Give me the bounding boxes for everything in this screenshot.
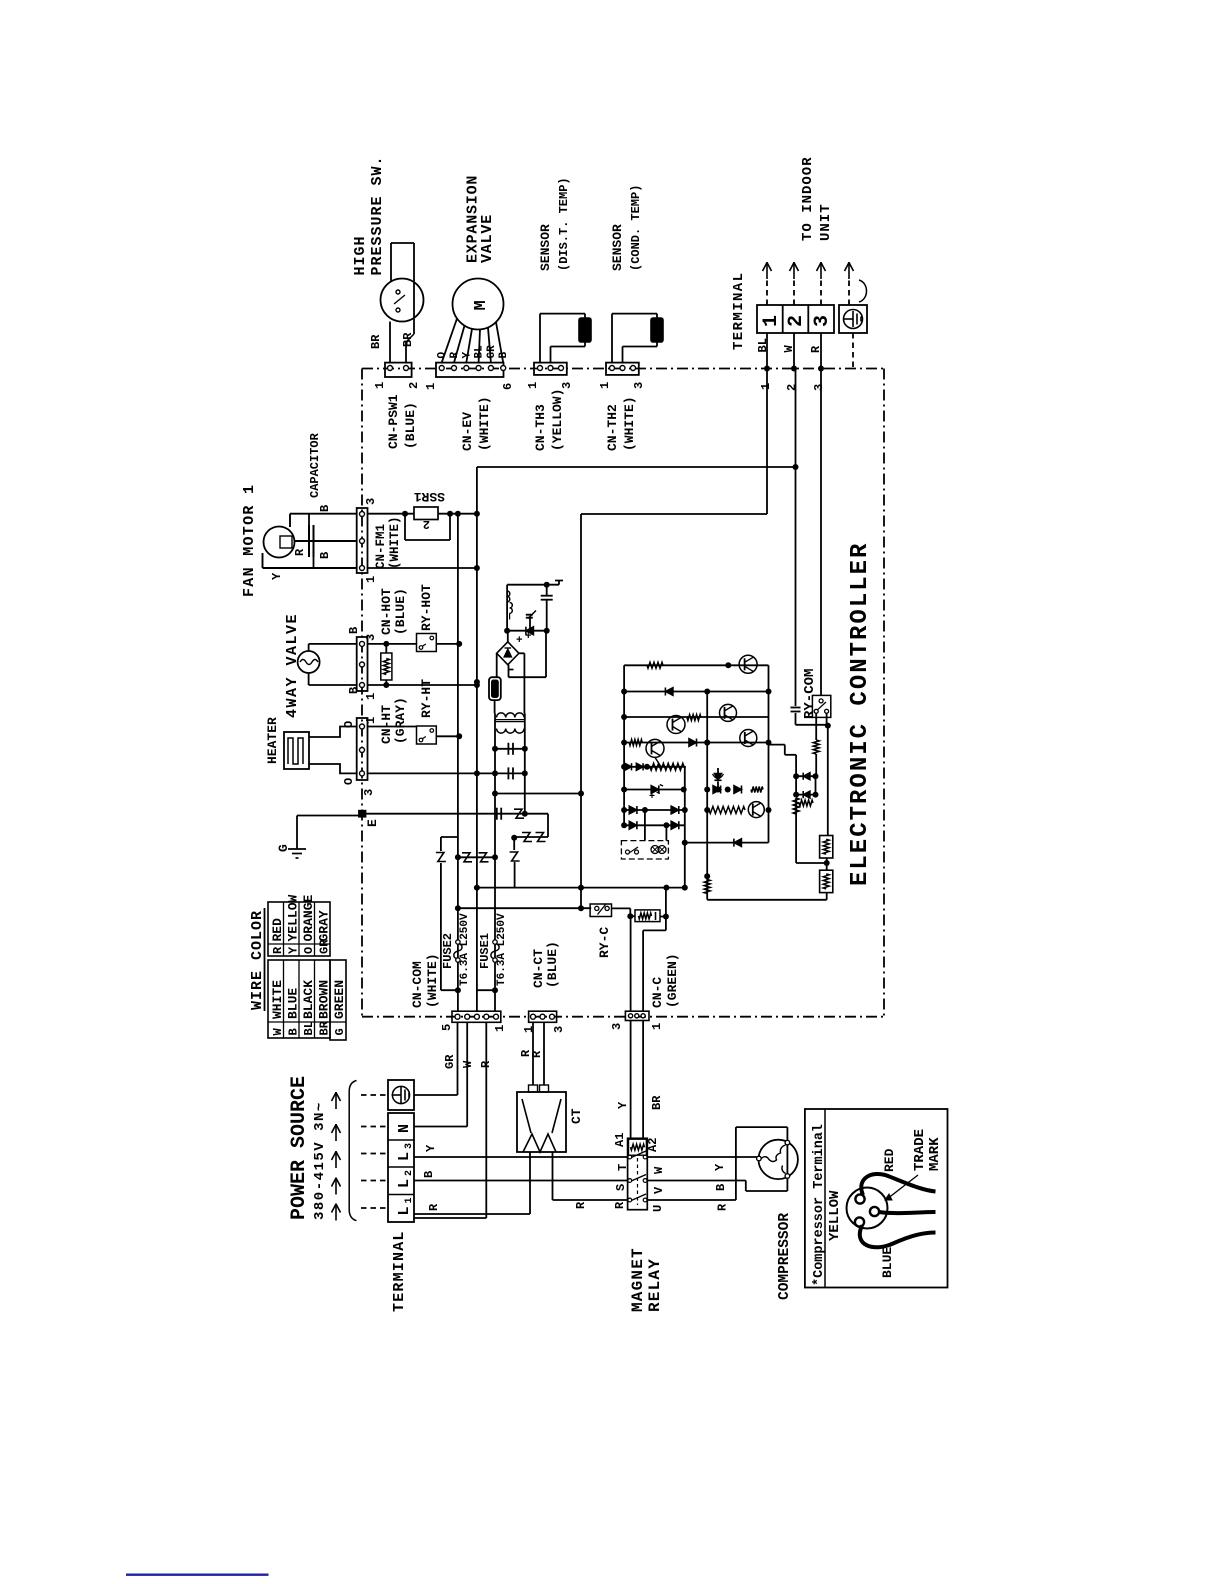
svg-text:R: R <box>449 352 461 359</box>
svg-text:3: 3 <box>560 382 574 389</box>
svg-text:CN-HOT: CN-HOT <box>379 588 394 635</box>
svg-text:1: 1 <box>424 383 438 390</box>
svg-text:1: 1 <box>650 1023 664 1030</box>
svg-text:Y: Y <box>424 1144 438 1152</box>
svg-text:+: + <box>649 792 655 803</box>
svg-text:HEATER: HEATER <box>265 717 280 764</box>
svg-text:MAGNET: MAGNET <box>629 1247 647 1312</box>
svg-text:2: 2 <box>785 315 808 327</box>
svg-text:R: R <box>271 946 285 954</box>
svg-text:TERMINAL: TERMINAL <box>391 1230 408 1312</box>
svg-text:M: M <box>472 300 491 310</box>
svg-text:RY-C: RY-C <box>597 927 612 958</box>
svg-text:BLACK: BLACK <box>301 980 316 1019</box>
svg-text:CN-FM1: CN-FM1 <box>374 524 388 569</box>
svg-text:BL: BL <box>474 345 486 359</box>
svg-text:BR: BR <box>369 334 383 349</box>
svg-text:YELLOW: YELLOW <box>827 1190 843 1241</box>
svg-text:(COND. TEMP): (COND. TEMP) <box>629 185 643 271</box>
svg-text:(BLUE): (BLUE) <box>403 402 418 449</box>
svg-text:CN-CT: CN-CT <box>531 949 546 988</box>
svg-text:B: B <box>318 505 332 512</box>
svg-text:WIRE COLOR: WIRE COLOR <box>249 910 266 1010</box>
svg-text:SSR1: SSR1 <box>414 489 445 504</box>
svg-text:BL: BL <box>302 1021 316 1035</box>
svg-text:RY-COM: RY-COM <box>802 669 818 719</box>
svg-text:GRAY: GRAY <box>317 910 332 941</box>
svg-text:TRADE: TRADE <box>912 1129 928 1171</box>
svg-text:380-415V 3N~: 380-415V 3N~ <box>312 1101 328 1220</box>
svg-text:3: 3 <box>610 1023 624 1030</box>
svg-text:HIGH: HIGH <box>352 235 369 275</box>
svg-text:G: G <box>333 1028 347 1035</box>
svg-text:(WHITE): (WHITE) <box>425 953 440 1008</box>
svg-text:T6.3A L250V: T6.3A L250V <box>496 913 508 986</box>
svg-text:(GRAY): (GRAY) <box>393 697 408 744</box>
svg-text:ORANGE: ORANGE <box>301 894 316 941</box>
svg-text:B: B <box>498 352 510 359</box>
svg-text:RY-HT: RY-HT <box>419 679 434 718</box>
svg-text:L: L <box>396 1152 413 1161</box>
svg-text:(GREEN): (GREEN) <box>665 953 680 1008</box>
svg-text:(WHITE): (WHITE) <box>388 516 402 569</box>
svg-text:COMPRESSOR: COMPRESSOR <box>777 1213 793 1300</box>
svg-text:CAPACITOR: CAPACITOR <box>308 432 322 498</box>
svg-text:VALVE: VALVE <box>479 214 496 263</box>
svg-text:E: E <box>365 819 380 827</box>
svg-text:GR: GR <box>486 345 498 359</box>
svg-text:1: 1 <box>526 382 540 389</box>
svg-text:W: W <box>271 1028 285 1036</box>
svg-text:SENSOR: SENSOR <box>610 224 625 271</box>
svg-text:+: + <box>516 635 523 647</box>
svg-text:(BLUE): (BLUE) <box>545 941 560 988</box>
svg-text:BL: BL <box>756 338 770 352</box>
svg-text:O: O <box>342 721 356 728</box>
svg-text:2: 2 <box>404 1170 415 1176</box>
svg-text:N: N <box>396 1124 413 1133</box>
svg-text:CN-COM: CN-COM <box>410 961 425 1008</box>
svg-text:BR: BR <box>401 332 415 347</box>
svg-text:FAN MOTOR 1: FAN MOTOR 1 <box>241 484 258 597</box>
svg-text:5: 5 <box>440 1024 454 1031</box>
svg-text:R: R <box>716 1203 730 1211</box>
svg-text:CN-HT: CN-HT <box>379 705 394 744</box>
svg-text:6: 6 <box>501 383 515 390</box>
svg-text:(WHITE): (WHITE) <box>477 396 492 451</box>
svg-text:TERMINAL: TERMINAL <box>731 272 747 350</box>
svg-text:(DIS.T. TEMP): (DIS.T. TEMP) <box>557 177 571 271</box>
svg-text:T6.3A L250V: T6.3A L250V <box>459 913 471 986</box>
svg-text:R: R <box>427 1203 441 1211</box>
svg-text:B: B <box>714 1184 728 1191</box>
svg-text:CN-PSW1: CN-PSW1 <box>386 394 401 449</box>
svg-text:3: 3 <box>404 1143 415 1149</box>
svg-text:GR: GR <box>443 1054 457 1069</box>
svg-text:R: R <box>530 1050 544 1058</box>
svg-text:RY-HOT: RY-HOT <box>419 584 434 631</box>
svg-text:CN-EV: CN-EV <box>460 412 475 451</box>
svg-text:4WAY VALVE: 4WAY VALVE <box>284 613 301 718</box>
svg-text:1: 1 <box>493 1025 507 1032</box>
svg-text:CN-C: CN-C <box>650 977 665 1008</box>
svg-text:R: R <box>809 345 823 353</box>
svg-text:B: B <box>422 1171 436 1178</box>
svg-text:A1: A1 <box>613 1133 627 1147</box>
svg-text:1: 1 <box>522 1026 536 1033</box>
svg-text:2: 2 <box>785 384 799 391</box>
svg-text:(WHITE): (WHITE) <box>622 396 637 451</box>
svg-text:3: 3 <box>364 634 378 641</box>
svg-text:+: + <box>525 631 532 643</box>
svg-text:3: 3 <box>364 498 378 505</box>
svg-text:1: 1 <box>404 1197 415 1203</box>
svg-text:WHITE: WHITE <box>270 980 285 1019</box>
svg-text:Y: Y <box>461 352 473 359</box>
svg-text:CN-TH2: CN-TH2 <box>605 404 620 451</box>
svg-text:RED: RED <box>882 1148 897 1172</box>
svg-text:B: B <box>287 1028 301 1035</box>
svg-text:Y: Y <box>287 946 301 954</box>
svg-text:2: 2 <box>407 382 421 389</box>
svg-text:G: G <box>276 844 291 852</box>
svg-text:Y: Y <box>270 572 284 580</box>
svg-text:3: 3 <box>362 789 376 796</box>
svg-text:SENSOR: SENSOR <box>538 224 553 271</box>
svg-text:L: L <box>396 1206 413 1215</box>
svg-text:1: 1 <box>364 717 378 724</box>
svg-text:1: 1 <box>759 383 773 390</box>
svg-text:B: B <box>347 627 361 634</box>
svg-text:RED: RED <box>270 918 285 942</box>
svg-text:ELECTRONIC CONTROLLER: ELECTRONIC CONTROLLER <box>847 542 874 886</box>
svg-text:1: 1 <box>364 693 378 700</box>
svg-text:U: U <box>651 1205 665 1212</box>
svg-text:Y: Y <box>713 1163 727 1171</box>
svg-text:2: 2 <box>423 517 430 531</box>
svg-text:W: W <box>652 1166 666 1174</box>
svg-text:MARK: MARK <box>927 1137 943 1171</box>
svg-text:3: 3 <box>811 315 834 327</box>
svg-text:POWER SOURCE: POWER SOURCE <box>288 1076 311 1220</box>
svg-text:W: W <box>782 345 796 353</box>
svg-text:R: R <box>293 548 307 556</box>
svg-text:BLUE: BLUE <box>880 1247 895 1278</box>
svg-text:UNIT: UNIT <box>818 203 834 241</box>
svg-text:T: T <box>616 1164 630 1171</box>
svg-text:3: 3 <box>632 382 646 389</box>
svg-text:O: O <box>437 352 449 359</box>
svg-text:R: R <box>574 1201 588 1209</box>
svg-text:(YELLOW): (YELLOW) <box>550 389 565 451</box>
svg-text:1: 1 <box>598 382 612 389</box>
svg-text:B: B <box>318 552 332 559</box>
svg-text:L: L <box>396 1179 413 1188</box>
svg-text:1: 1 <box>364 576 378 583</box>
svg-text:YELLOW: YELLOW <box>286 894 301 941</box>
svg-text:RELAY: RELAY <box>646 1258 664 1312</box>
svg-text:R: R <box>479 1060 493 1068</box>
svg-text:B: B <box>347 687 361 694</box>
svg-text:CT: CT <box>569 1108 584 1124</box>
svg-text:TO INDOOR: TO INDOOR <box>800 156 816 241</box>
svg-text:CN-TH3: CN-TH3 <box>533 404 548 451</box>
svg-text:S: S <box>614 1184 628 1191</box>
svg-text:O: O <box>342 778 356 785</box>
svg-text:PRESSURE SW.: PRESSURE SW. <box>369 155 386 275</box>
svg-text:GREEN: GREEN <box>332 980 347 1019</box>
svg-text:BLUE: BLUE <box>286 988 301 1019</box>
svg-text:W: W <box>461 1060 475 1068</box>
svg-text:1: 1 <box>760 315 783 327</box>
svg-text:Y: Y <box>616 1101 630 1109</box>
svg-text:FUSE2: FUSE2 <box>441 933 455 969</box>
svg-text:R: R <box>613 1201 627 1209</box>
svg-text:3: 3 <box>552 1026 566 1033</box>
svg-text:O: O <box>302 947 316 954</box>
svg-text:V: V <box>652 1186 666 1194</box>
svg-text:BR: BR <box>650 1095 664 1110</box>
svg-text:A2: A2 <box>646 1138 660 1152</box>
svg-text:FUSE1: FUSE1 <box>478 933 492 969</box>
svg-text:(BLUE): (BLUE) <box>393 588 408 635</box>
svg-text:1: 1 <box>373 382 387 389</box>
svg-text:*Compressor Terminal: *Compressor Terminal <box>812 1124 827 1286</box>
svg-text:3: 3 <box>812 384 826 391</box>
